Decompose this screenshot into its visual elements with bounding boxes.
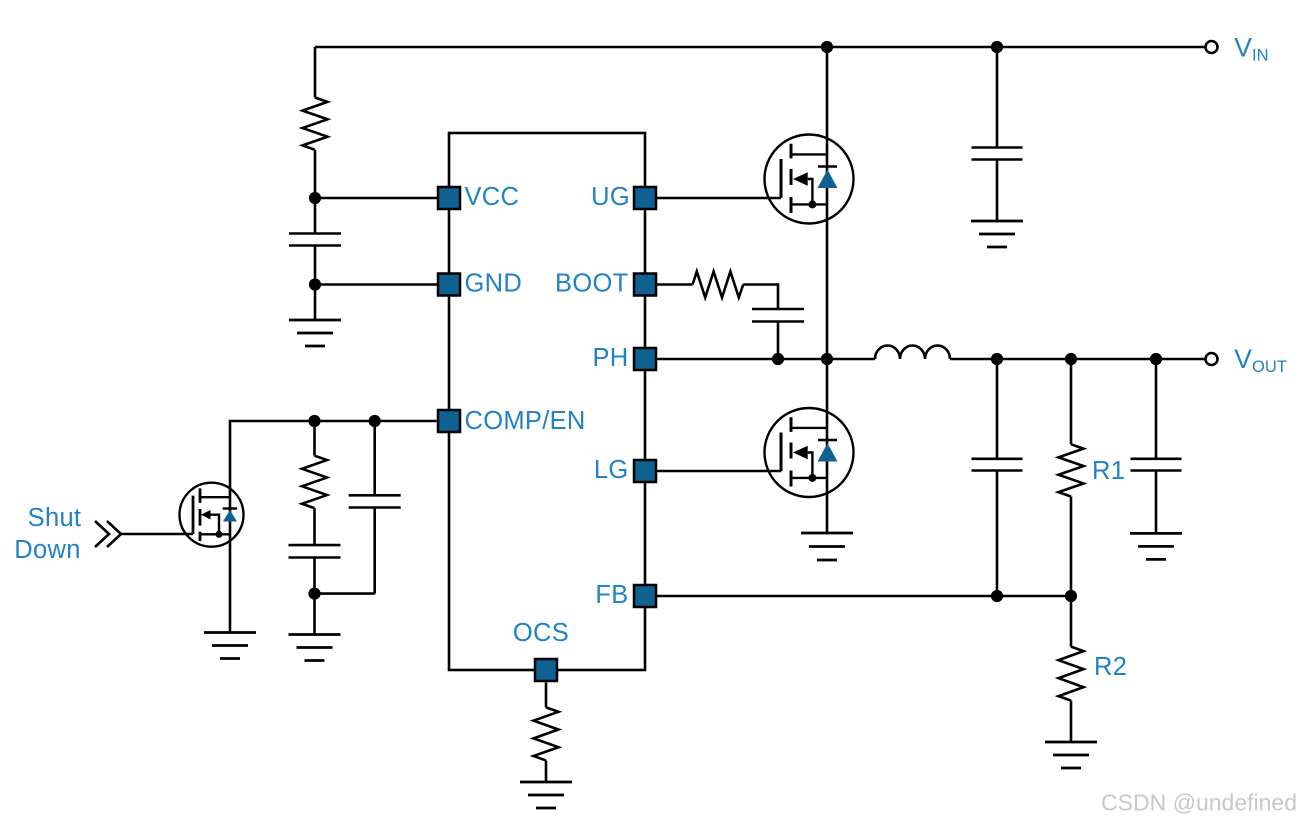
svg-text:R1: R1 [1092, 457, 1125, 485]
svg-text:V: V [1234, 33, 1252, 63]
svg-text:IN: IN [1252, 47, 1269, 65]
svg-text:LG: LG [594, 456, 629, 484]
svg-text:R2: R2 [1094, 653, 1127, 681]
svg-text:V: V [1234, 344, 1252, 374]
svg-text:OCS: OCS [513, 619, 569, 647]
svg-text:OUT: OUT [1252, 358, 1287, 376]
svg-text:PH: PH [592, 344, 628, 372]
svg-text:BOOT: BOOT [555, 270, 628, 298]
svg-text:FB: FB [595, 581, 628, 609]
svg-text:Down: Down [14, 536, 80, 564]
svg-text:GND: GND [465, 270, 523, 298]
svg-text:COMP/EN: COMP/EN [465, 407, 586, 435]
svg-text:CSDN @undefined: CSDN @undefined [1101, 790, 1297, 816]
svg-text:VCC: VCC [465, 183, 520, 211]
svg-text:Shut: Shut [28, 504, 82, 532]
svg-text:UG: UG [591, 183, 630, 211]
